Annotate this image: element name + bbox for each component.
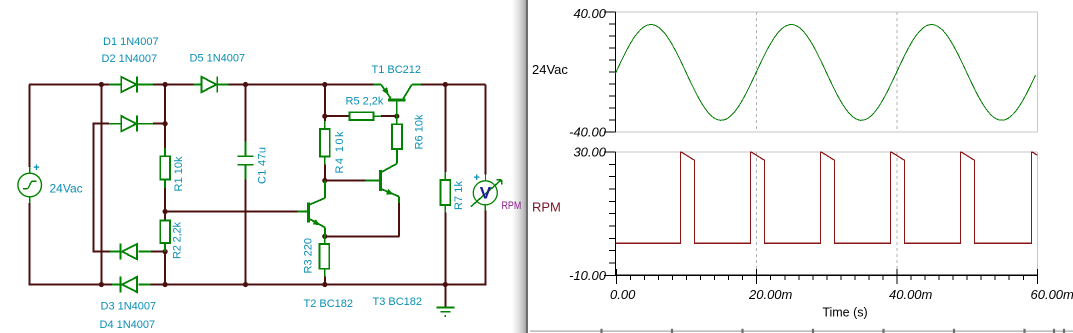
svg-text:V: V [480,184,492,203]
svg-text:+: + [474,172,480,184]
svg-text:T1 BC212: T1 BC212 [372,64,422,76]
svg-text:T3 BC182: T3 BC182 [373,296,423,308]
resistor R1 [164,148,166,156]
wire T3 emitter down [398,203,400,236]
wire C1 bottom [245,180,247,285]
wire source to bottom rail [29,203,31,285]
wire R3 to bottom rail [324,277,326,285]
junction top rail / D1 cathode column [163,82,168,87]
svg-text:R2 2,2k: R2 2,2k [172,222,184,260]
diode D4 [112,284,120,286]
svg-text:Time (s): Time (s) [822,306,867,320]
junction D2 cathode / R1 column [163,121,168,126]
svg-text:RPM: RPM [532,200,561,215]
y axis RPM plot [615,152,617,275]
resistor R4 [324,121,326,129]
junction T2 emitter / R3 / T3 emitter wire [322,234,327,239]
gridline right edge both plots [1037,12,1039,132]
wire ground stem [444,285,446,300]
junction top rail / R4 [322,82,327,87]
junction bottom rail / C1 [243,282,248,287]
svg-text:+: + [33,162,39,174]
wire column D1-D2-R1 [164,85,166,149]
axis labels [569,6,1073,302]
svg-text:40.00: 40.00 [573,6,606,21]
bottom ruler strip [528,327,1073,333]
junction bottom rail / left branch [99,282,104,287]
schematic pane [0,0,528,333]
RPM square curve [616,152,1038,243]
svg-text:-40.00: -40.00 [569,124,607,139]
svg-text:R4 10k: R4 10k [334,131,346,174]
pane divider line [526,0,528,333]
gridline top of RPM plot [616,151,1038,153]
voltage source 24Vac [18,167,42,203]
junction bottom rail / R7 / ground [443,282,448,287]
junction R4 / T2 collector / T3 base [322,178,327,183]
wire emitter row to T2 [325,235,400,237]
svg-text:24Vac: 24Vac [50,181,83,195]
svg-text:20.00m: 20.00m [748,287,793,302]
wire bottom rail middle segment [150,284,445,286]
svg-text:D5 1N4007: D5 1N4007 [190,53,246,65]
svg-text:30.00: 30.00 [573,145,606,160]
diode D2 [109,123,121,125]
wire R2 to bottom rail [164,252,166,285]
diode D5 [194,84,202,86]
junction top rail / left branch [99,82,104,87]
svg-text:40.00m: 40.00m [889,287,933,302]
diode D1 [109,84,121,86]
wire bottom rail left segment [29,284,112,286]
resistor R7 [444,172,446,180]
svg-text:R5 2,2k: R5 2,2k [346,95,384,107]
wire source to top rail [29,85,31,168]
svg-text:RPM: RPM [502,200,522,212]
plot pane [528,0,1073,333]
svg-text:D2 1N4007: D2 1N4007 [102,53,158,65]
gridline bottom of 24Vac plot [616,131,1038,133]
junction T1 base / R5 / R6 [394,114,399,119]
svg-text:24Vac: 24Vac [532,62,568,77]
wire left branch D2-D3 [92,124,94,252]
wire C1 top [245,85,247,142]
wire R7 column bottom [444,213,446,285]
24Vac sine curve [616,25,1036,121]
junction top rail / R7 column [443,82,448,87]
svg-text:R6 10k: R6 10k [414,114,426,150]
y axis 24Vac plot [615,12,617,132]
svg-text:T2 BC182: T2 BC182 [304,298,354,310]
wire left branch top-to-bottom [100,85,102,285]
wire R5 left lead [325,115,350,117]
ground [436,299,454,316]
x axis [615,274,1038,276]
wire top rail left segment [29,84,109,86]
wire D2 row [93,123,109,125]
svg-text:R7 1k: R7 1k [453,181,465,211]
wire R4 to T3 base node [324,165,326,181]
pane divider shadow [512,0,526,333]
dashed gridline 20ms [756,12,758,132]
dashed gridline 40ms [896,12,898,132]
junction R1-R2 / T2 base wire [163,209,168,214]
svg-text:-10.00: -10.00 [569,268,607,283]
resistor R6 [396,116,398,124]
wire V meter bottom rail [445,284,486,286]
diode D3 [110,251,120,253]
svg-text:D1 1N4007: D1 1N4007 [103,36,159,48]
svg-text:D4 1N4007: D4 1N4007 [100,319,156,331]
svg-text:0.00: 0.00 [610,287,636,302]
wire T3 base row [325,180,366,182]
capacitor C1 [237,142,253,180]
transistor T1 pnp [374,85,421,117]
wire T1 collector to R7 column [421,84,486,86]
wire top rail D5-T1 segment [220,84,373,86]
junction D3 / R2 bottom [163,249,168,254]
gridline top of 24Vac plot [616,11,1038,13]
svg-text:R1 10k: R1 10k [173,156,185,192]
voltmeter RPM [471,175,502,211]
junction top rail / C1 [243,82,248,87]
wire D3 row [93,251,110,253]
svg-text:60.00m: 60.00m [1031,287,1073,302]
resistor R2 [160,221,170,244]
wire top rail D1-D5 segment [153,84,194,86]
wire mid row R1R2 junction to T2 base [165,211,297,213]
transistor T3 npn [366,164,399,204]
svg-text:D3 1N4007: D3 1N4007 [101,301,157,313]
svg-text:C1 47u: C1 47u [257,147,269,184]
junction bottom rail / R2 column [163,282,168,287]
junction bottom rail / R3 [322,282,327,287]
wire R4 column top [324,85,326,122]
wire R7 column top [444,85,446,173]
transistor T2 npn [298,181,326,237]
resistor R3 [324,236,326,244]
svg-text:R3 220: R3 220 [303,238,315,273]
wire V meter column top [485,85,487,175]
resistor R5 [350,112,374,120]
wire V meter column bottom [485,211,487,285]
junction R4 / R5 [322,114,327,119]
wire R1 to R2 [164,188,166,221]
